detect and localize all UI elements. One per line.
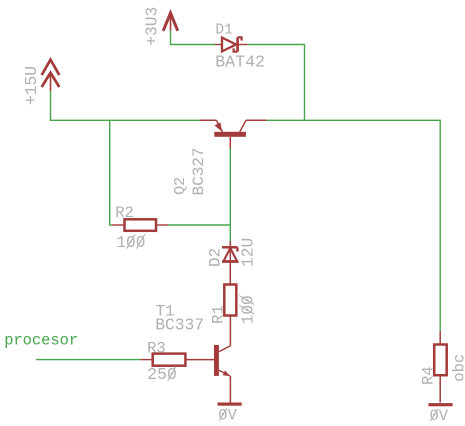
label 0V left xyxy=(218,407,237,425)
ground left xyxy=(218,403,242,406)
label BC337 xyxy=(155,315,204,334)
svg-text:0V: 0V xyxy=(430,407,449,425)
resistor R3 xyxy=(141,354,186,366)
transistor Q2 xyxy=(200,120,266,148)
label procesor xyxy=(4,331,78,349)
svg-text:100: 100 xyxy=(116,234,145,252)
svg-text:obc: obc xyxy=(451,354,465,382)
wire Q2 base down xyxy=(229,149,231,242)
label 100 xyxy=(239,295,257,324)
power +3V3 arrow xyxy=(163,13,178,31)
ground right xyxy=(428,403,452,406)
svg-text:BC337: BC337 xyxy=(155,315,204,334)
resistor R1 xyxy=(224,285,236,316)
wire rail to R2 branch xyxy=(110,120,113,225)
svg-text:+15U: +15U xyxy=(22,66,41,105)
svg-text:procesor: procesor xyxy=(4,331,78,349)
svg-text:BAT42: BAT42 xyxy=(215,53,265,72)
wire D1 to rail xyxy=(248,45,305,121)
diode D1 xyxy=(215,37,248,51)
transistor T1 xyxy=(185,345,230,403)
label +3V3 xyxy=(142,7,161,46)
svg-text:250: 250 xyxy=(147,365,177,384)
svg-text:D2: D2 xyxy=(206,248,224,267)
label D2 xyxy=(206,248,224,267)
wire procesor to R3 xyxy=(36,359,141,361)
svg-text:R2: R2 xyxy=(115,204,134,222)
wire collector rail to R4 xyxy=(266,120,440,331)
svg-text:0V: 0V xyxy=(218,407,237,425)
zener diode D2 xyxy=(222,241,239,285)
label 250 xyxy=(147,365,177,384)
svg-text:BC327: BC327 xyxy=(190,147,208,195)
wire R2 to Q2 base xyxy=(168,224,230,226)
label R2 xyxy=(115,204,134,222)
power +15V arrow xyxy=(42,60,60,91)
svg-text:12U: 12U xyxy=(238,238,257,267)
wire R1 to T1 collector xyxy=(229,316,231,346)
svg-text:+3U3: +3U3 xyxy=(142,7,161,46)
label +15V xyxy=(22,66,41,105)
resistor R2 xyxy=(112,219,168,231)
label BC327 xyxy=(190,147,208,195)
label T1 xyxy=(156,302,175,320)
label D1 xyxy=(215,23,232,39)
wire +15V rail xyxy=(51,91,201,120)
wire +3V3 to D1 xyxy=(171,31,216,45)
label R4 xyxy=(420,366,438,385)
svg-text:R1: R1 xyxy=(209,305,227,324)
label 12V xyxy=(238,238,257,267)
label R3 xyxy=(147,339,166,357)
label Q2 xyxy=(172,177,189,195)
resistor R4 xyxy=(434,331,447,403)
svg-text:D1: D1 xyxy=(215,23,232,39)
label 0V right xyxy=(430,407,449,425)
label obc xyxy=(451,354,465,382)
svg-text:R4: R4 xyxy=(420,366,438,385)
label BAT42 xyxy=(215,53,265,72)
label R1 xyxy=(209,305,227,324)
label 100 xyxy=(116,234,145,252)
svg-text:Q2: Q2 xyxy=(172,177,189,195)
svg-text:100: 100 xyxy=(239,295,257,324)
svg-text:R3: R3 xyxy=(147,339,166,357)
